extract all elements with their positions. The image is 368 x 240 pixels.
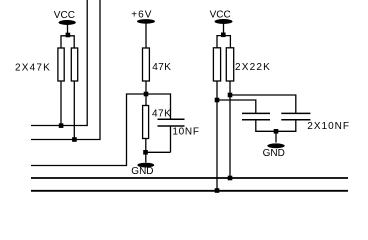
svg-text:GND: GND	[263, 148, 285, 159]
svg-text:47K: 47K	[152, 62, 171, 73]
svg-text:47K: 47K	[152, 109, 171, 120]
svg-text:VCC: VCC	[54, 10, 75, 21]
svg-text:+6V: +6V	[131, 10, 152, 21]
svg-text:2X47K: 2X47K	[15, 63, 51, 74]
svg-text:2X22K: 2X22K	[235, 62, 271, 73]
svg-text:2X10NF: 2X10NF	[307, 121, 350, 132]
svg-text:VCC: VCC	[210, 10, 231, 21]
svg-text:GND: GND	[131, 166, 153, 177]
svg-text:10NF: 10NF	[172, 127, 199, 138]
